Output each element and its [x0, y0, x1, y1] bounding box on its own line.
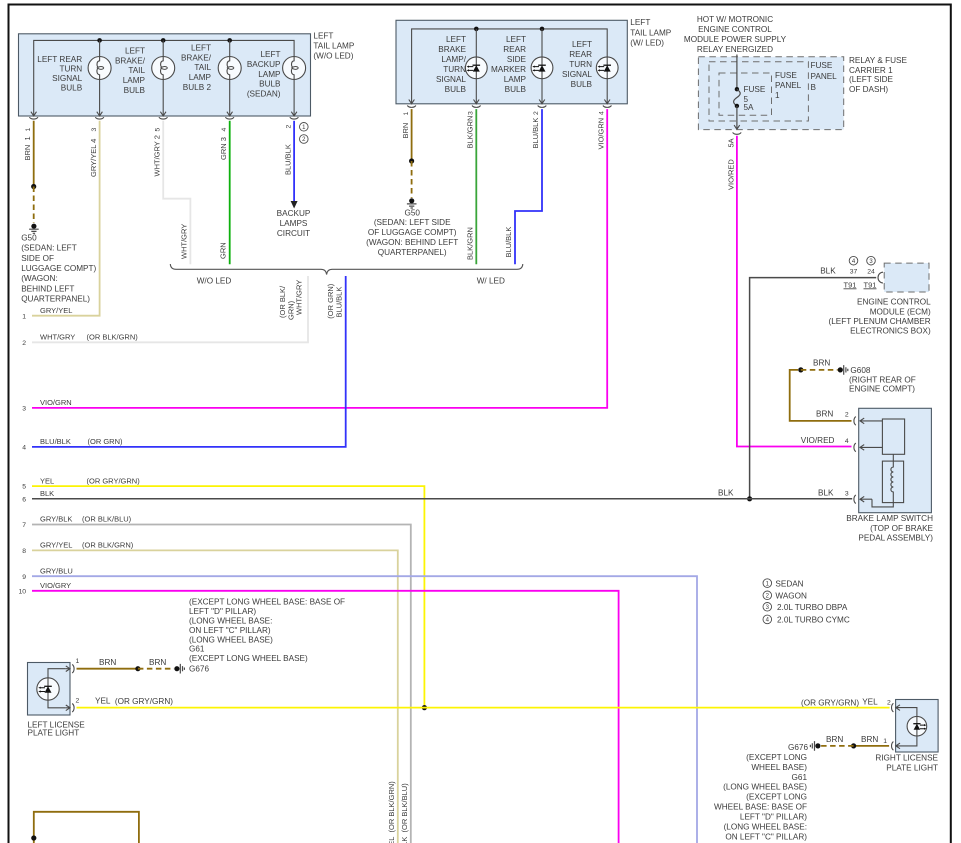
node: G676 dot	[174, 666, 179, 671]
label (OR GRY/GRN) YEL right	[801, 697, 878, 707]
wire GRN from pin 4 to brace	[229, 121, 231, 264]
svg-text:BEHIND LEFT: BEHIND LEFT	[21, 284, 74, 293]
ground G676 symbol	[180, 664, 184, 674]
svg-text:BRAKE/: BRAKE/	[181, 53, 212, 62]
svg-text:10: 10	[18, 588, 26, 595]
svg-text:(EXCEPT LONG: (EXCEPT LONG	[746, 793, 807, 802]
wire GRY/YEL from pin 3 to row 1	[32, 121, 100, 316]
label left tail lamp (W/ LED)	[630, 18, 671, 47]
node: W/LED bus dot 2	[540, 27, 545, 32]
svg-text:PLATE LIGHT: PLATE LIGHT	[28, 729, 80, 738]
LED right license plate light	[907, 716, 927, 736]
svg-text:(LONG WHEEL BASE): (LONG WHEEL BASE)	[723, 783, 807, 792]
svg-text:2: 2	[533, 111, 540, 115]
svg-text:BRAKE: BRAKE	[438, 45, 466, 54]
ECM dashed box	[884, 263, 929, 292]
wire BLU/BLK below brace to row 4	[32, 276, 346, 447]
svg-text:QUARTERPANEL): QUARTERPANEL)	[378, 248, 447, 257]
svg-text:MODULE (ECM): MODULE (ECM)	[870, 307, 931, 316]
wire bulb3 drop	[229, 40, 231, 116]
svg-text:HOT W/ MOTRONIC: HOT W/ MOTRONIC	[697, 15, 773, 24]
svg-text:G61: G61	[792, 773, 808, 782]
wire BRN solid from W/LED pin 1	[411, 109, 413, 161]
wire BLK/GRN from pin 3 to brace	[475, 109, 477, 264]
svg-text:BRN: BRN	[826, 735, 843, 744]
variant marker circled 4	[849, 256, 858, 265]
svg-text:SIDE: SIDE	[507, 55, 527, 64]
variant marker circled 1	[300, 123, 309, 132]
svg-text:LAMP: LAMP	[189, 73, 212, 82]
ground G676 symbol right	[810, 741, 814, 751]
connector cup right license pin 2	[892, 703, 894, 712]
svg-text:OF LUGGAGE COMPT): OF LUGGAGE COMPT)	[368, 228, 457, 237]
svg-text:BLK: BLK	[818, 488, 834, 497]
label bulb1	[37, 55, 82, 93]
connector cup brake pin 3	[854, 495, 856, 504]
connector cup pin 4	[225, 117, 234, 119]
wire bulb4 drop	[293, 79, 295, 116]
left tail lamp (W/ LED) box	[396, 20, 627, 104]
pin arrow 3	[97, 112, 103, 116]
W/LED pin arrow 2	[539, 100, 545, 104]
svg-text:WHEEL BASE: BASE OF: WHEEL BASE: BASE OF	[714, 803, 807, 812]
fuse panel B dashed box	[709, 62, 808, 121]
link switch to coil	[892, 454, 894, 461]
connector cup pin 5	[159, 117, 168, 119]
row 7 wire GRY/BLK with riser to bottom	[32, 525, 411, 843]
wire from fuse to carrier exit arrow	[736, 106, 738, 129]
row 9 wire GRY/BLU with riser to bottom	[32, 576, 697, 843]
node: G676 dot right	[815, 743, 820, 748]
right license internal wire	[900, 708, 917, 746]
svg-text:WHEEL BASE): WHEEL BASE)	[751, 763, 807, 772]
svg-text:BLK: BLK	[718, 488, 734, 497]
connector cup W/LED pin 4	[603, 106, 612, 108]
svg-text:(SEDAN: LEFT SIDE: (SEDAN: LEFT SIDE	[374, 218, 451, 227]
svg-text:T91: T91	[864, 280, 877, 289]
label LED1	[436, 35, 467, 94]
svg-text:(TOP OF BRAKE: (TOP OF BRAKE	[870, 524, 933, 533]
label relay & fuse carrier 1	[849, 56, 907, 94]
label ground G50 (right)	[366, 208, 458, 257]
svg-text:(OR BLK/BLU): (OR BLK/BLU)	[82, 515, 132, 524]
wire bulb2 drop	[162, 40, 164, 116]
svg-text:WHT/GRY: WHT/GRY	[179, 224, 188, 259]
svg-text:G676: G676	[788, 743, 808, 752]
wire BRN dashed to G50	[411, 161, 413, 198]
svg-text:4: 4	[221, 128, 228, 132]
bulb LEFT REAR TURN SIGNAL BULB	[88, 57, 111, 80]
right license pin 2 arrow	[896, 705, 900, 711]
svg-text:5: 5	[22, 484, 26, 491]
svg-text:TAIL LAMP: TAIL LAMP	[313, 42, 354, 51]
svg-text:LEFT: LEFT	[506, 35, 526, 44]
wire BRN dashed to G676 right	[821, 745, 854, 747]
svg-text:(LONG WHEEL BASE:: (LONG WHEEL BASE:	[189, 617, 272, 626]
wire YEL license row	[77, 707, 890, 709]
svg-text:YEL: YEL	[862, 697, 878, 706]
svg-text:BULB: BULB	[61, 83, 83, 92]
label hot w/ motronic header	[684, 15, 787, 54]
svg-text:BRN: BRN	[861, 735, 878, 744]
bulb LEFT BRAKE/TAIL LAMP BULB 2	[218, 57, 241, 80]
wire VIO/RED from fuse to brake lamp switch pin 4	[737, 136, 852, 447]
wire BRN solid from pin 1	[33, 121, 35, 187]
svg-text:VIO/GRY: VIO/GRY	[40, 581, 71, 590]
bulb LEFT BRAKE/TAIL LAMP BULB	[152, 57, 175, 80]
svg-text:1: 1	[25, 128, 32, 132]
brake pin 3 arrow and lead	[860, 496, 872, 502]
svg-text:(W/O LED): (W/O LED)	[313, 52, 353, 61]
svg-text:TAIL LAMP: TAIL LAMP	[630, 29, 671, 38]
svg-text:VIO/GRN: VIO/GRN	[596, 118, 605, 150]
row 10 wire VIO/GRY with riser to bottom	[32, 591, 619, 843]
svg-text:8: 8	[22, 548, 26, 555]
wire BRN dashed to G676	[138, 668, 174, 670]
svg-text:(RIGHT REAR OF: (RIGHT REAR OF	[849, 375, 916, 384]
left tail lamp (W/O LED) box	[19, 34, 311, 116]
wire WHT/GRY below brace to row 2	[32, 276, 308, 342]
svg-text:LAMP: LAMP	[258, 70, 281, 79]
svg-text:(OR GRY/GRN): (OR GRY/GRN)	[801, 699, 859, 708]
connector cup left license pin 1	[72, 664, 74, 673]
brake pin 3 internal jog to coil	[872, 499, 893, 507]
svg-text:G676: G676	[189, 665, 209, 674]
svg-text:BLK: BLK	[820, 267, 836, 276]
svg-text:GRY/BLK (OR BLK/BLU): GRY/BLK (OR BLK/BLU)	[400, 783, 409, 843]
coil element	[891, 461, 893, 503]
connector cup pin 1	[29, 117, 38, 119]
svg-text:LEFT: LEFT	[125, 47, 145, 56]
svg-text:1: 1	[883, 738, 887, 745]
svg-text:RELAY & FUSE: RELAY & FUSE	[849, 56, 907, 65]
svg-text:LEFT: LEFT	[446, 35, 466, 44]
note ground locations (right)	[714, 753, 807, 841]
wire BRN dashed to G50	[33, 187, 35, 224]
svg-text:FUSE: FUSE	[744, 85, 766, 94]
svg-text:TURN: TURN	[59, 64, 82, 73]
left license pin 2 arrow	[66, 705, 70, 711]
svg-text:9: 9	[22, 574, 26, 581]
legend circled 3 2.0L TURBO DBPA	[763, 603, 848, 613]
svg-text:YEL: YEL	[40, 476, 54, 485]
svg-text:LEFT: LEFT	[191, 44, 211, 53]
right license plate light box	[896, 700, 939, 753]
arrow to backup lamps circuit	[291, 201, 298, 209]
svg-text:(LEFT PLENUM CHAMBER: (LEFT PLENUM CHAMBER	[828, 317, 930, 326]
wire LED3 drop	[606, 57, 608, 104]
svg-text:(SEDAN: LEFT: (SEDAN: LEFT	[21, 244, 77, 253]
svg-text:BLU/BLK: BLU/BLK	[283, 144, 292, 175]
node: BRN splice dot right	[851, 743, 856, 748]
left tail lamp internal bus wire	[34, 40, 294, 116]
node: splice dot bottom left	[31, 835, 36, 840]
node: bus junction dot 1	[97, 38, 102, 43]
svg-text:WAGON: WAGON	[775, 591, 807, 600]
pin arrow 4	[227, 112, 233, 116]
svg-text:BRN 1: BRN 1	[23, 136, 32, 160]
left license plate light box	[28, 663, 71, 716]
connector cup pin 3	[95, 117, 104, 119]
svg-text:BRN: BRN	[813, 359, 830, 368]
svg-text:BRAKE/: BRAKE/	[115, 56, 146, 65]
svg-text:RELAY ENERGIZED: RELAY ENERGIZED	[697, 45, 773, 54]
legend circled 1 SEDAN	[763, 579, 804, 589]
node: BRN splice dot	[409, 158, 414, 163]
svg-text:BLK/GRN: BLK/GRN	[466, 116, 475, 149]
svg-text:CARRIER 1: CARRIER 1	[849, 66, 893, 75]
label brake lamp switch	[846, 514, 933, 542]
wire BRN from right license pin 1	[854, 745, 890, 747]
fuse panel 1 dashed box	[719, 73, 772, 115]
svg-text:PANEL: PANEL	[775, 81, 802, 90]
svg-text:ENGINE COMPT): ENGINE COMPT)	[849, 385, 915, 394]
node: G608 dot	[838, 367, 843, 372]
fuse exit arrow	[734, 125, 740, 129]
brake switch contact rectangle	[882, 419, 904, 454]
pin arrow 1	[31, 112, 37, 116]
brake lamp switch box	[859, 408, 932, 512]
svg-text:(SEDAN): (SEDAN)	[247, 89, 281, 98]
label left tail lamp (W/O LED)	[313, 32, 354, 61]
svg-text:2: 2	[22, 340, 26, 347]
svg-text:3: 3	[845, 490, 849, 497]
partial component wires at bottom left	[34, 812, 139, 843]
label YEL (OR GRY/GRN) left	[95, 696, 173, 706]
svg-text:PANEL: PANEL	[811, 72, 838, 81]
svg-text:LEFT REAR: LEFT REAR	[37, 55, 82, 64]
svg-text:BLU/BLK: BLU/BLK	[40, 437, 71, 446]
svg-text:LEFT "D" PILLAR): LEFT "D" PILLAR)	[189, 607, 256, 616]
svg-text:(OR GRN): (OR GRN)	[88, 437, 123, 446]
svg-text:G50: G50	[404, 208, 420, 217]
node: BRN splice dot	[31, 184, 36, 189]
left license internal wire	[48, 669, 66, 708]
LED bulb LEFT REAR TURN SIGNAL BULB	[596, 57, 618, 79]
brake switch coil box	[882, 461, 903, 503]
svg-text:G50: G50	[21, 234, 37, 243]
connector label T91 (underlined)	[844, 280, 857, 289]
W/LED internal bus wire	[412, 29, 608, 104]
svg-text:REAR: REAR	[503, 45, 526, 54]
svg-text:BLU/BLK: BLU/BLK	[334, 287, 343, 318]
relay & fuse carrier outer dashed box	[698, 57, 843, 130]
legend circled 2 WAGON	[763, 591, 807, 600]
svg-text:BULB 2: BULB 2	[183, 83, 212, 92]
svg-text:4: 4	[598, 111, 605, 115]
svg-text:(WAGON:: (WAGON:	[21, 274, 58, 283]
row 2 label WHT/GRY (OR BLK/GRN)	[40, 333, 138, 342]
svg-text:ON LEFT "C" PILLAR): ON LEFT "C" PILLAR)	[189, 626, 271, 635]
svg-text:LEFT: LEFT	[313, 32, 333, 41]
svg-text:VIO/RED: VIO/RED	[726, 159, 735, 190]
LED left license plate light	[37, 678, 59, 700]
label bulb2	[115, 47, 146, 95]
label (OR BLK/ GRN) WHT/GRY below brace	[278, 280, 304, 320]
brake pin 4 arrow and lead	[860, 445, 882, 451]
label left license plate light	[28, 720, 86, 737]
label FUSE 5 5A	[744, 85, 766, 112]
svg-text:1: 1	[775, 91, 780, 100]
svg-text:5: 5	[154, 128, 161, 132]
svg-text:LUGGAGE COMPT): LUGGAGE COMPT)	[21, 264, 96, 273]
right license pin 1 arrow	[896, 743, 900, 749]
svg-text:(EXCEPT LONG WHEEL BASE): (EXCEPT LONG WHEEL BASE)	[189, 654, 308, 663]
svg-text:BACKUP: BACKUP	[277, 209, 311, 218]
svg-text:2: 2	[887, 699, 891, 706]
svg-text:LAMP: LAMP	[123, 76, 146, 85]
wire BRN from brake switch pin 2 to G608	[790, 370, 852, 421]
pin arrow 2	[291, 112, 297, 116]
svg-text:6: 6	[22, 496, 26, 503]
connector cup brake pin 2	[854, 417, 856, 426]
svg-text:FUSE: FUSE	[811, 61, 833, 70]
connector label T91 second (underlined)	[864, 280, 877, 289]
svg-text:3: 3	[468, 111, 475, 115]
svg-text:ENGINE CONTROL: ENGINE CONTROL	[857, 298, 931, 307]
connector cup fuse exit	[733, 132, 742, 134]
svg-text:TURN: TURN	[569, 60, 592, 69]
ground G608 symbol	[844, 365, 848, 375]
label right license plate light	[875, 753, 938, 772]
note ground locations (left, above left license light)	[189, 598, 345, 674]
label LED2	[491, 35, 527, 94]
connector cup pin 2	[290, 117, 299, 119]
svg-text:(LONG WHEEL BASE): (LONG WHEEL BASE)	[189, 636, 273, 645]
svg-text:PLATE LIGHT: PLATE LIGHT	[886, 764, 938, 773]
svg-text:BACKUP: BACKUP	[247, 60, 281, 69]
node: bus junction dot 2	[161, 38, 166, 43]
connector cup brake pin 4	[854, 443, 856, 452]
connector cup W/LED pin 2	[538, 106, 547, 108]
svg-text:G61: G61	[189, 645, 205, 654]
W/LED pin arrow 4	[604, 100, 610, 104]
svg-text:1: 1	[22, 313, 26, 320]
svg-text:SIGNAL: SIGNAL	[436, 75, 466, 84]
svg-text:GRY/YEL 4: GRY/YEL 4	[89, 139, 98, 177]
connector cup right license pin 1	[892, 742, 894, 751]
left license pin 1 arrow	[66, 666, 70, 672]
wire BLU/BLK from pin 2 to backup lamps arrow	[293, 121, 295, 201]
node: G50 dot	[31, 224, 36, 229]
svg-text:GRY/YEL (OR BLK/GRN): GRY/YEL (OR BLK/GRN)	[387, 781, 396, 843]
svg-text:BLK: BLK	[40, 489, 54, 498]
wire VIO/GRN from pin 4 to row 3	[32, 109, 607, 408]
row 7 label GRY/BLK (OR BLK/BLU)	[40, 515, 132, 524]
svg-text:REAR: REAR	[569, 50, 592, 59]
svg-text:BULB: BULB	[571, 80, 593, 89]
label bulb4	[247, 50, 281, 98]
fuse F5 element	[734, 87, 741, 108]
label bulb3	[181, 44, 212, 92]
wire bulb1 drop	[99, 40, 101, 116]
wire BRN dashed to G608	[801, 369, 838, 371]
label (OR GRN) BLU/BLK below brace	[326, 283, 343, 318]
svg-text:ELECTRONICS BOX): ELECTRONICS BOX)	[850, 326, 931, 335]
svg-text:5A: 5A	[744, 103, 755, 112]
svg-text:BULB: BULB	[505, 85, 527, 94]
label BRN right pair	[826, 735, 878, 744]
bulb LEFT BACKUP LAMP BULB (SEDAN)	[283, 57, 306, 80]
svg-text:LEFT: LEFT	[572, 40, 592, 49]
svg-text:GRN 3: GRN 3	[219, 137, 228, 160]
brake pin 2 arrow and lead	[860, 418, 882, 424]
svg-text:VIO/RED: VIO/RED	[801, 436, 835, 445]
svg-text:2: 2	[76, 697, 80, 704]
svg-text:ENGINE CONTROL: ENGINE CONTROL	[698, 25, 772, 34]
row 8 wire GRY/YEL with riser to bottom	[32, 550, 398, 843]
svg-text:BLK/GRN: BLK/GRN	[466, 227, 475, 260]
svg-text:G608: G608	[850, 366, 870, 375]
svg-text:LAMPS: LAMPS	[280, 219, 308, 228]
wire WHT/GRY from pin 5 with jog to brace	[163, 121, 190, 264]
node: YEL junction at license row	[422, 705, 427, 710]
svg-text:(LEFT SIDE: (LEFT SIDE	[849, 75, 894, 84]
label LED3	[562, 40, 593, 89]
label engine control module	[828, 298, 931, 336]
svg-text:TAIL: TAIL	[194, 63, 211, 72]
svg-text:3: 3	[91, 128, 98, 132]
row 6 wire BLK to brake switch pin 3	[32, 498, 852, 500]
svg-text:BRAKE LAMP SWITCH: BRAKE LAMP SWITCH	[846, 514, 933, 523]
svg-text:LEFT: LEFT	[630, 18, 650, 27]
row 5 wire YEL	[32, 486, 424, 707]
svg-text:(OR GRY/GRN): (OR GRY/GRN)	[115, 697, 173, 706]
legend circled 4 2.0L TURBO CYMC	[763, 615, 850, 624]
row 8 label GRY/YEL (OR BLK/GRN)	[40, 541, 134, 550]
svg-text:7: 7	[22, 522, 26, 529]
svg-text:MODULE POWER SUPPLY: MODULE POWER SUPPLY	[684, 35, 787, 44]
svg-text:LAMP/: LAMP/	[441, 55, 466, 64]
node: BLK junction on row 6	[747, 496, 752, 501]
pin arrow 5	[160, 112, 166, 116]
W/LED pin arrow 3	[474, 100, 480, 104]
node: BRN splice dot	[135, 666, 140, 671]
svg-text:(OR GRY/GRN): (OR GRY/GRN)	[87, 476, 141, 485]
svg-text:1: 1	[403, 112, 410, 116]
svg-text:BULB: BULB	[124, 86, 146, 95]
svg-text:2.0L TURBO CYMC: 2.0L TURBO CYMC	[777, 615, 850, 624]
svg-text:SIDE OF: SIDE OF	[21, 254, 54, 263]
row 4 label BLU/BLK (OR GRN)	[40, 437, 123, 446]
svg-text:GRY/YEL: GRY/YEL	[40, 541, 72, 550]
svg-text:GRY/BLK: GRY/BLK	[40, 515, 72, 524]
wire BLU/BLK from pin 2 jog to brace	[515, 109, 542, 264]
label ground G608	[849, 366, 916, 394]
svg-text:SEDAN: SEDAN	[775, 579, 803, 588]
svg-text:GRY/YEL: GRY/YEL	[40, 306, 72, 315]
wire LED1 drop	[475, 29, 477, 104]
svg-text:QUARTERPANEL): QUARTERPANEL)	[21, 295, 90, 304]
svg-text:RIGHT LICENSE: RIGHT LICENSE	[875, 753, 938, 762]
svg-text:4: 4	[22, 445, 26, 452]
node: G50 dot (right)	[409, 198, 414, 203]
ground G50 symbol	[29, 229, 39, 233]
svg-text:5A: 5A	[726, 138, 735, 147]
svg-text:BULB: BULB	[259, 80, 281, 89]
svg-text:2.0L TURBO DBPA: 2.0L TURBO DBPA	[777, 603, 848, 612]
svg-text:SIGNAL: SIGNAL	[562, 70, 592, 79]
wire LED2 drop	[541, 29, 543, 104]
svg-text:TAIL: TAIL	[128, 66, 145, 75]
variant marker circled 3	[867, 256, 876, 265]
svg-text:T91: T91	[844, 280, 857, 289]
svg-text:BULB: BULB	[445, 85, 467, 94]
svg-text:CIRCUIT: CIRCUIT	[277, 229, 310, 238]
svg-text:37: 37	[850, 269, 858, 276]
svg-text:BRN: BRN	[99, 658, 116, 667]
svg-text:OF DASH): OF DASH)	[849, 85, 888, 94]
